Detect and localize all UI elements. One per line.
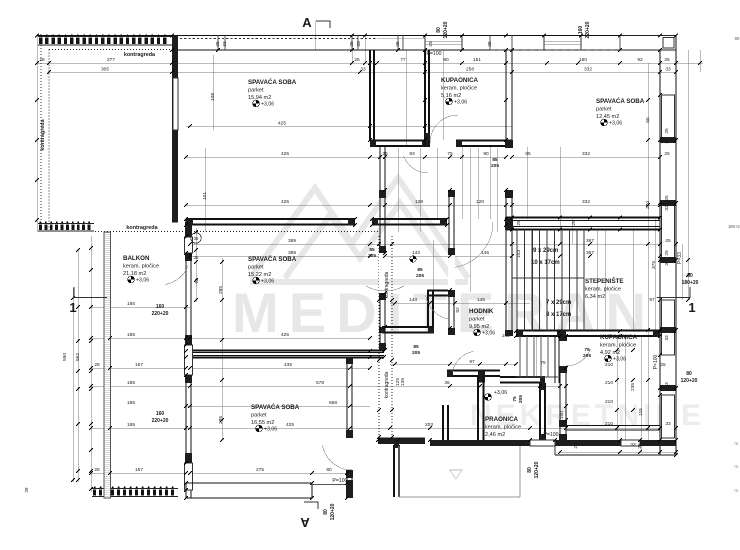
right outer wall [675,36,677,456]
svg-text:285: 285 [218,286,224,294]
svg-text:25: 25 [637,443,643,449]
svg-text:28: 28 [24,487,29,493]
svg-text:4,92 m2: 4,92 m2 [600,350,620,356]
svg-text:562: 562 [75,353,81,361]
wall H5 hodnik south [447,370,500,372]
wall V x394 bottom [393,445,395,497]
svg-text:P=100: P=100 [653,354,659,369]
stairs flight 2 [519,336,521,377]
svg-text:25: 25 [215,41,221,47]
top outer wall [37,35,676,37]
railing mid-left [38,223,94,225]
svg-text:A: A [302,15,312,30]
svg-text:25: 25 [664,57,670,63]
svg-text:332: 332 [582,199,590,205]
svg-text:285: 285 [218,416,224,424]
svg-text:kontragreda: kontragreda [124,52,156,58]
railing bottom [92,488,178,490]
svg-text:33: 33 [665,421,671,427]
svg-text:220: 220 [645,201,651,209]
svg-text:205: 205 [518,395,524,403]
svg-text:25: 25 [395,41,401,47]
svg-text:80: 80 [326,467,332,473]
svg-text:77: 77 [400,57,406,63]
svg-text:85: 85 [525,151,531,157]
svg-text:425: 425 [281,151,289,157]
svg-text:33: 33 [360,67,366,73]
svg-text:kontragreda: kontragreda [126,225,158,231]
svg-text:143: 143 [412,250,420,256]
svg-text:220+20: 220+20 [152,418,169,424]
svg-text:33: 33 [664,138,670,144]
svg-text:85: 85 [369,247,375,253]
svg-text:keram. pločice: keram. pločice [600,343,636,349]
svg-text:92: 92 [637,57,643,63]
svg-text:A: A [300,515,310,530]
svg-text:93: 93 [409,151,415,157]
svg-text:25: 25 [664,151,670,157]
svg-text:145: 145 [481,250,489,256]
wall V praonica left x481 [477,376,479,440]
svg-text:25: 25 [573,443,579,449]
svg-text:P=33: P=33 [677,252,683,264]
svg-text:36: 36 [193,255,199,260]
svg-text:258: 258 [466,67,474,73]
svg-text:180+20: 180+20 [682,280,699,286]
svg-text:80: 80 [527,467,533,473]
svg-text:25: 25 [664,195,670,201]
svg-text:425: 425 [286,422,294,428]
svg-text:235: 235 [630,383,636,391]
svg-text:SPAVAĆA SOBA: SPAVAĆA SOBA [248,78,297,86]
svg-text:25: 25 [665,238,671,244]
svg-text:578: 578 [316,380,324,386]
svg-text:KUPAONICA: KUPAONICA [600,334,638,341]
svg-text:277: 277 [107,57,115,63]
svg-text:+3,06: +3,06 [609,121,622,127]
svg-text:135: 135 [400,378,406,386]
patio outline [398,446,400,497]
svg-text:P=100: P=100 [543,432,558,438]
svg-text:425: 425 [278,121,286,127]
svg-text:205: 205 [583,353,591,359]
kontragreda dotted beam lines [49,49,172,51]
svg-text:92: 92 [455,307,461,313]
svg-text:28: 28 [94,362,100,368]
svg-text:108: 108 [210,93,216,101]
wall kupaonica2 bottom [566,425,660,427]
door arcs [430,115,458,143]
svg-text:185: 185 [127,301,135,307]
svg-text:425: 425 [281,332,289,338]
svg-text:25: 25 [349,41,355,47]
svg-text:203: 203 [425,422,433,428]
svg-text:75: 75 [734,441,739,446]
svg-text:HODNIK: HODNIK [469,308,494,315]
svg-text:160: 160 [579,57,587,63]
svg-text:16,55 m2: 16,55 m2 [251,420,274,426]
svg-text:185: 185 [127,380,135,386]
svg-text:+3,06: +3,06 [482,331,495,337]
svg-text:keram. pločice: keram. pločice [441,86,477,92]
svg-text:5,16 m2: 5,16 m2 [441,93,461,99]
svg-text:143: 143 [409,297,417,303]
svg-text:75: 75 [540,360,546,366]
svg-text:33: 33 [664,205,670,211]
wall H6 [427,290,455,292]
svg-text:205: 205 [491,163,499,169]
wall V corridor left (x372) [369,50,371,140]
svg-text:180+20: 180+20 [728,224,740,229]
svg-text:keram. pločice: keram. pločice [123,264,159,270]
svg-text:KUPAONICA: KUPAONICA [441,77,479,84]
svg-text:658: 658 [329,400,337,406]
svg-text:7 x 29cm: 7 x 29cm [546,300,571,306]
svg-text:SPAVAĆA SOBA: SPAVAĆA SOBA [596,97,645,105]
svg-text:305: 305 [101,67,109,73]
svg-text:36: 36 [444,380,450,386]
wall V stair left x509 [505,50,507,336]
svg-text:157: 157 [135,467,143,473]
svg-text:+3,06: +3,06 [261,102,274,108]
svg-text:15,22 m2: 15,22 m2 [248,272,271,278]
svg-text:P=100: P=100 [426,51,441,57]
svg-text:75: 75 [512,396,518,402]
svg-text:8 x 17cm: 8 x 17cm [546,312,571,318]
svg-text:9,95 m2: 9,95 m2 [469,324,489,330]
svg-text:25: 25 [571,220,577,226]
dimension grid [37,21,703,492]
svg-text:25: 25 [664,250,670,256]
svg-text:25: 25 [516,220,522,226]
wall H2 main [186,218,355,220]
svg-text:103: 103 [516,250,522,258]
svg-text:+3,06: +3,06 [264,427,277,433]
svg-text:120+20: 120+20 [534,461,540,478]
svg-text:145: 145 [477,297,485,303]
svg-text:33: 33 [664,260,670,266]
svg-text:90: 90 [735,36,740,41]
svg-text:parket: parket [248,265,264,271]
bottom wall bedroom3 band [186,482,312,484]
wall H7 [382,326,434,328]
svg-text:120: 120 [476,199,484,205]
svg-text:25: 25 [660,362,666,368]
svg-text:157: 157 [135,362,143,368]
svg-text:+3,06: +3,06 [613,357,626,363]
svg-text:151: 151 [473,57,481,63]
wall V x452 [448,190,450,335]
svg-text:+3,06: +3,06 [494,390,507,396]
svg-text:SPAVAĆA SOBA: SPAVAĆA SOBA [251,403,300,411]
svg-text:242: 242 [502,333,510,339]
svg-text:205: 205 [416,273,424,279]
svg-text:80: 80 [443,57,449,63]
svg-text:425: 425 [281,199,289,205]
svg-text:15,94 m2: 15,94 m2 [248,95,271,101]
svg-text:25: 25 [428,41,434,47]
svg-text:75: 75 [447,151,453,157]
circled 36 [191,233,201,243]
svg-text:85: 85 [413,344,419,350]
svg-text:220+20: 220+20 [585,21,591,38]
svg-text:332: 332 [582,151,590,157]
svg-text:parket: parket [248,88,264,94]
svg-text:6,34 m2: 6,34 m2 [585,294,605,300]
svg-text:kontragreda: kontragreda [384,271,390,298]
dimension ticks [35,61,39,65]
svg-text:75: 75 [734,488,739,493]
svg-text:28: 28 [94,467,100,473]
svg-text:210: 210 [605,421,613,427]
svg-text:210: 210 [605,399,613,405]
svg-text:keram. pločice: keram. pločice [485,425,521,431]
svg-text:160: 160 [578,26,584,35]
svg-text:75: 75 [584,347,590,353]
svg-text:STEPENIŠTE: STEPENIŠTE [585,277,624,285]
wall V x382 [379,146,381,350]
wall H4 stair bottom / kupaonica2 top [516,330,660,332]
svg-text:2,46 m2: 2,46 m2 [485,432,505,438]
svg-text:160: 160 [156,304,165,310]
svg-text:160: 160 [156,411,165,417]
svg-text:12,45 m2: 12,45 m2 [596,114,619,120]
svg-text:590: 590 [62,353,68,361]
svg-text:28: 28 [39,57,45,63]
svg-text:33: 33 [664,335,670,341]
watermark logo [250,178,468,282]
svg-text:120+20: 120+20 [681,378,698,384]
svg-text:1: 1 [69,300,76,315]
svg-text:keram. pločice: keram. pločice [585,287,621,293]
svg-text:120+20: 120+20 [330,503,336,520]
svg-text:80: 80 [323,509,329,515]
svg-text:100: 100 [559,411,565,419]
wall V left lower (building left wall at balcony) [185,219,187,498]
svg-text:parket: parket [469,317,485,323]
svg-text:332: 332 [584,67,592,73]
wall V x542 [539,383,541,440]
svg-text:25: 25 [354,57,360,63]
svg-text:275: 275 [256,467,264,473]
svg-text:25: 25 [382,151,388,157]
svg-text:85: 85 [417,267,423,273]
svg-text:97: 97 [469,359,475,365]
svg-text:389: 389 [288,238,296,244]
svg-text:1: 1 [688,300,695,315]
svg-text:kontragreda: kontragreda [384,371,390,398]
svg-text:+3,06: +3,06 [136,278,149,284]
svg-text:205: 205 [412,350,420,356]
stairs flight 1 [516,230,518,331]
svg-text:75: 75 [734,464,739,469]
svg-text:97: 97 [649,297,655,303]
svg-text:220+20: 220+20 [152,311,169,317]
svg-text:21,18 m2: 21,18 m2 [123,271,146,277]
svg-text:62: 62 [194,278,199,284]
svg-text:+3,06: +3,06 [454,100,467,106]
svg-text:85: 85 [492,157,498,163]
svg-text:205: 205 [368,253,376,259]
svg-text:25: 25 [509,220,515,226]
svg-text:185: 185 [127,332,135,338]
svg-text:25: 25 [664,128,670,134]
svg-text:120+20: 120+20 [443,21,449,38]
svg-text:185: 185 [127,422,135,428]
svg-text:90: 90 [483,151,489,157]
svg-text:185: 185 [127,400,135,406]
svg-text:65: 65 [645,117,651,123]
svg-text:115: 115 [638,408,644,416]
svg-text:435: 435 [284,362,292,368]
svg-text:P=100: P=100 [332,478,347,484]
svg-text:25: 25 [487,41,493,47]
stair wall x558 [554,336,556,383]
svg-text:101: 101 [202,192,208,200]
wall V kupaonica2 left x563 [559,336,561,440]
svg-text:33: 33 [630,442,636,448]
bottom wall center [378,438,425,445]
svg-text:80: 80 [436,27,442,33]
svg-text:367: 367 [586,238,594,244]
svg-text:9 x 29cm: 9 x 29cm [533,248,558,254]
svg-text:210: 210 [605,380,613,386]
svg-text:33: 33 [664,382,670,388]
wall V kupaonica1 left x427 [424,50,426,147]
svg-text:33: 33 [356,41,362,47]
svg-text:kontragreda: kontragreda [40,118,46,150]
railing top [38,36,172,38]
svg-text:+3,06: +3,06 [261,279,274,285]
svg-text:367: 367 [586,250,594,256]
svg-text:210: 210 [605,362,613,368]
wall V praonica inner x446 [442,405,444,440]
wall V x430 closet [427,291,429,328]
wall V bedroom3 right x350 [346,357,348,498]
svg-text:90: 90 [687,273,693,279]
svg-text:parket: parket [251,413,267,419]
svg-text:SPAVAĆA SOBA: SPAVAĆA SOBA [248,255,297,263]
svg-text:33: 33 [665,67,671,73]
svg-text:parket: parket [596,107,612,113]
svg-text:375: 375 [651,261,657,269]
svg-text:128: 128 [415,199,423,205]
svg-text:36: 36 [194,236,199,241]
wall H1 [370,140,428,142]
svg-text:10 x 17cm: 10 x 17cm [531,260,560,266]
svg-text:PRAONICA: PRAONICA [485,416,519,423]
wall H2 stair top [506,217,660,219]
svg-text:80: 80 [686,371,692,377]
svg-text:BALKON: BALKON [123,255,150,262]
wall H3 [186,350,384,352]
svg-text:33: 33 [222,41,228,47]
